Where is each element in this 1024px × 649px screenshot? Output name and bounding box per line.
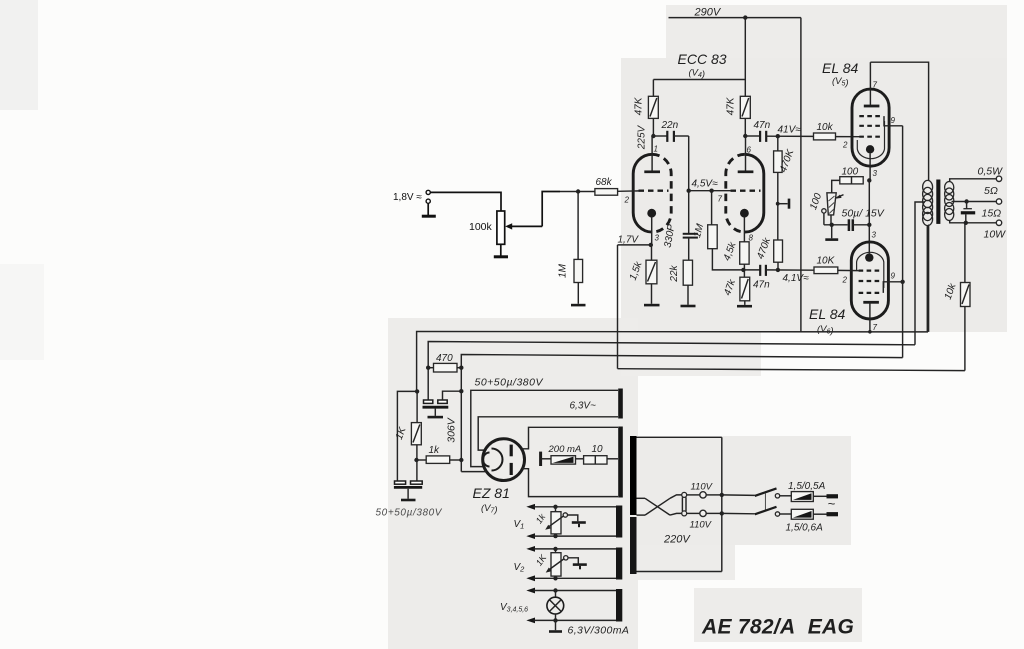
pentode V5 anode bar <box>864 105 880 108</box>
resistor 22k <box>683 260 692 285</box>
svg-text:7: 7 <box>873 81 878 90</box>
wire 470 left node <box>428 367 433 369</box>
svg-text:1,7V: 1,7V <box>618 235 640 246</box>
wire 1M-2 grid leak top <box>711 191 713 225</box>
capacitor 47n upper <box>760 131 766 142</box>
svg-text:3: 3 <box>655 234 660 243</box>
wire cathode node to 47n lower <box>743 269 760 271</box>
junction dot 41V node <box>776 134 780 138</box>
wire upper cap ground stub <box>434 409 436 416</box>
junction dot 1K top <box>415 389 419 393</box>
svg-text:ECC 83: ECC 83 <box>678 51 727 67</box>
resistor 100 cathode <box>840 177 863 184</box>
arrow lamp bottom <box>526 618 535 624</box>
arrow trimmer adjust <box>837 195 844 198</box>
junction dot box edge top <box>720 493 724 497</box>
wire pot bottom lead <box>500 244 502 256</box>
scan paper block top right <box>666 5 1007 59</box>
svg-text:290V: 290V <box>694 7 722 19</box>
slash in 1,5k <box>648 262 656 282</box>
triode ECC83a anode lead <box>651 136 653 172</box>
svg-text:220V: 220V <box>663 534 691 546</box>
svg-text:22k: 22k <box>669 264 680 282</box>
wire input grid line scan part <box>560 191 595 193</box>
slash in 1K <box>413 425 420 443</box>
scan paper 220V lower block <box>638 545 735 580</box>
triode ECC83a anode bar <box>644 170 660 173</box>
wire jumper to 110V circle bottom <box>687 512 700 514</box>
junction dot box edge bottom <box>720 511 724 515</box>
svg-text:1,8V ≈: 1,8V ≈ <box>393 192 422 203</box>
triode ECC83b grid dashes <box>731 190 761 192</box>
transformer core primary-side bar <box>630 436 637 515</box>
pentode V6 anode bar <box>863 301 879 304</box>
capacitor 47n lower <box>760 265 766 276</box>
junction dot grid T2 <box>709 189 713 193</box>
ground 22k <box>681 305 696 308</box>
scan paper bus strip <box>621 332 761 376</box>
ground chassis bar <box>788 199 791 209</box>
wire tap cross lower stub <box>637 514 646 516</box>
capacitor across secondary taps <box>963 208 972 210</box>
wire 1M-2 bottom lead <box>712 249 743 270</box>
wire 10 to core <box>607 458 618 460</box>
transformer core bar <box>936 180 940 224</box>
transformer core secondary-side lamp segment <box>616 589 622 622</box>
capacitor 50+50u upper pair plate A <box>424 400 433 403</box>
arrow V1 top <box>526 504 535 510</box>
switch blade top <box>755 488 777 496</box>
wire 10k to grid V5 <box>836 136 860 138</box>
ground lower cap pair <box>401 499 416 502</box>
divider in 100 resistor <box>851 177 853 184</box>
wire V1 bottom <box>534 535 617 537</box>
junction dot cathode T1 <box>649 243 653 247</box>
svg-text:1: 1 <box>654 145 658 154</box>
fuse bottom wedge <box>793 511 812 518</box>
switch contact top <box>775 494 779 498</box>
wire input ground lead <box>427 203 429 215</box>
resistor 10 body <box>584 456 607 464</box>
switch blade bottom <box>755 507 777 515</box>
triode ECC83b anode bar <box>738 170 754 173</box>
switch mechanical link <box>764 493 766 510</box>
fuse 1,5/0,5A body <box>791 492 813 502</box>
wire 470k-1 top lead <box>777 136 779 151</box>
capacitor 50+50u upper pair plate B <box>438 400 447 403</box>
junction dot 290V rail <box>743 15 747 19</box>
wire tap cross diagonal A <box>645 498 670 515</box>
wire primary bottom lead <box>928 225 930 332</box>
EZ81 anode bar top <box>510 445 513 457</box>
svg-text:47n: 47n <box>753 280 770 291</box>
svg-text:~: ~ <box>828 496 836 511</box>
resistor 10k grid stopper V5 <box>814 133 836 140</box>
wire 110V top to box edge <box>706 494 722 496</box>
resistor 10k grid stopper V6 <box>814 267 838 274</box>
wire secondary top rail <box>950 179 997 182</box>
svg-text:47K: 47K <box>634 96 645 115</box>
node terminal 5ohm <box>996 199 1001 204</box>
svg-text:6: 6 <box>747 146 752 155</box>
wire 1M-1 bottom lead <box>577 283 579 304</box>
svg-text:(V6): (V6) <box>817 324 834 337</box>
wire lamp row ground lead <box>555 620 557 630</box>
ground V2 wiper <box>573 563 587 566</box>
svg-text:2: 2 <box>842 276 848 285</box>
svg-text:4,1V≈: 4,1V≈ <box>783 273 810 284</box>
resistor 4,5k <box>740 242 749 264</box>
wire 470k-2 bottom lead <box>777 262 779 270</box>
junction dot anode T1 <box>651 134 655 138</box>
wire 22n to grid column <box>674 135 689 137</box>
triode ECC83a cathode dot <box>647 209 656 218</box>
svg-text:V2: V2 <box>514 562 526 574</box>
scan artifact top-left <box>0 0 38 110</box>
wire left PSU node top <box>397 391 417 481</box>
svg-text:50+50µ/380V: 50+50µ/380V <box>475 377 544 389</box>
svg-text:6,3V~: 6,3V~ <box>570 401 597 412</box>
scan artifact left <box>0 264 44 360</box>
node V2 wiper circle <box>564 556 568 560</box>
transformer core secondary-side heater segment <box>618 389 623 419</box>
junction dot mid 470k <box>776 202 780 206</box>
wire 47k-1 top lead <box>652 80 654 97</box>
wire box to switch bottom <box>722 512 755 514</box>
wire input to pot top <box>430 192 501 211</box>
resistor 68k <box>595 189 618 196</box>
junction dot cathode T2 node <box>741 268 745 272</box>
junction dot lamp top <box>553 588 557 592</box>
wire HT drop right side <box>800 18 802 332</box>
wire cap bottom lead <box>965 214 967 222</box>
wire cross to jumper bottom <box>670 513 682 515</box>
junction dot cathode column <box>867 223 871 227</box>
ground HV centre bar <box>539 452 542 466</box>
slash in 47k right <box>742 98 749 117</box>
wire bus feedback <box>618 369 965 371</box>
junction dot V2 bottom <box>553 576 557 580</box>
wire V2 top <box>534 548 617 550</box>
arrow through V2 pot <box>548 559 564 571</box>
wire bus screens supply <box>461 355 902 472</box>
wire 110V bottom to box edge <box>706 512 722 514</box>
transformer core secondary-side HV segment <box>618 427 623 498</box>
wire secondary bottom rail <box>950 220 997 223</box>
arrow V2 top <box>526 546 535 552</box>
wire cathode T1 node <box>618 244 652 246</box>
svg-text:50+50µ/380V: 50+50µ/380V <box>376 508 443 519</box>
wire V6 screen link <box>883 282 902 293</box>
svg-text:2: 2 <box>624 196 630 205</box>
arrow pot wiper head <box>505 223 512 229</box>
wire 4,5k bottom lead <box>743 264 745 277</box>
wire 47k-1 bottom lead <box>652 118 654 136</box>
wire chassis stub <box>778 203 788 205</box>
pentode EL84 V5 envelope <box>852 89 889 166</box>
lamp cross <box>549 600 561 612</box>
node 110V terminal bottom <box>700 510 706 516</box>
wire 1K bottom lead <box>416 445 418 481</box>
pentode EL84 V6 envelope <box>851 242 888 319</box>
wire 22k to ground <box>687 285 689 305</box>
ground lamp row <box>549 630 562 633</box>
trimmer V1 hum pot body <box>551 512 561 534</box>
wire cathode bias rail <box>824 224 848 226</box>
triode ECC83b cathode dot <box>740 209 749 218</box>
wire feedback column <box>964 223 966 283</box>
svg-text:7: 7 <box>718 195 723 204</box>
wire lamp bottom <box>534 619 617 621</box>
wire V1 top <box>534 506 617 508</box>
svg-text:41V≈: 41V≈ <box>778 125 802 136</box>
svg-text:9: 9 <box>891 116 896 125</box>
triode ECC83b envelope solid half <box>745 154 764 232</box>
triode ECC83b anode lead <box>745 136 747 172</box>
arrow V2 bottom <box>526 575 535 581</box>
wire 4,5k top lead <box>743 241 745 243</box>
wire upper cap B lead <box>443 391 462 400</box>
wire primary box bottom rail <box>637 571 722 573</box>
divider in 10 resistor <box>594 456 596 464</box>
resistor 1,5k cathode <box>646 260 657 284</box>
wire 1k right lead <box>450 459 462 461</box>
wire lamp top <box>534 590 617 592</box>
wire trimmer bottom lead <box>830 215 832 225</box>
svg-text:0,5W: 0,5W <box>978 166 1004 178</box>
svg-text:V1: V1 <box>514 519 525 531</box>
svg-text:10: 10 <box>592 444 604 455</box>
junction dot V2 top <box>553 547 557 551</box>
scan paper PSU block <box>388 318 638 649</box>
pentode V6 anode lead <box>869 302 871 332</box>
triode ECC83b cathode lead <box>743 217 745 242</box>
capacitor 50+50u lower pair plate A <box>395 481 406 484</box>
ground pot bottom <box>494 255 508 258</box>
svg-text:200 mA: 200 mA <box>548 444 582 455</box>
wire screens column <box>902 126 904 358</box>
fuse 1,5/0,6A body <box>791 509 813 519</box>
wire switch to fuse bottom <box>780 513 792 515</box>
fuse 200mA body <box>551 456 576 464</box>
wire feedback drop <box>617 245 619 369</box>
slash in 47k cathode <box>742 279 749 299</box>
resistor 1M grid leak T2 <box>708 225 718 249</box>
ground input jack <box>422 215 436 218</box>
junction dot 306V node <box>459 458 463 462</box>
svg-text:10k: 10k <box>817 122 834 133</box>
lamp leads <box>555 591 557 599</box>
pentode V6 cathode dot <box>865 253 873 261</box>
voltage selector jumper terminal bottom <box>682 511 687 516</box>
svg-text:5Ω: 5Ω <box>984 185 998 197</box>
junction dot screens <box>900 280 904 284</box>
svg-text:15Ω: 15Ω <box>982 208 1002 220</box>
wire 10k to grid V6 <box>838 269 859 271</box>
resistor anode 47k (left) <box>648 96 658 118</box>
triode ECC83b envelope dashed half <box>726 154 745 232</box>
switch contact bottom <box>775 512 779 516</box>
svg-text:3: 3 <box>872 231 877 240</box>
capacitor 330p <box>683 234 698 238</box>
svg-text:EL 84: EL 84 <box>809 306 846 322</box>
resistor anode 47k (right) <box>740 96 750 118</box>
junction dot V6 anode on bus <box>868 330 872 334</box>
svg-text:9: 9 <box>891 272 896 281</box>
junction dot 470 left <box>426 366 430 370</box>
svg-text:225V: 225V <box>637 124 648 150</box>
junction dot bias rail <box>830 223 834 227</box>
wire anode supply rail <box>653 79 745 81</box>
svg-text:110V: 110V <box>691 482 714 493</box>
junction dot anode T2 <box>743 134 747 138</box>
wire primary centre tap <box>915 202 925 345</box>
wire 470k column <box>777 172 779 240</box>
wire 1k left lead <box>417 459 426 461</box>
pentode V6 grid rows <box>859 271 880 293</box>
svg-text:1,5/0,6A: 1,5/0,6A <box>786 523 824 534</box>
resistor 470k lower <box>774 240 783 262</box>
EZ81 anode bar bottom <box>510 463 513 475</box>
svg-text:2: 2 <box>842 141 848 150</box>
ground 1,5k <box>644 304 660 307</box>
slash in 47k left <box>650 98 657 117</box>
junction dot 1k node <box>414 458 418 462</box>
wire anode supply drop <box>744 18 746 97</box>
wire anode T1 to 22n <box>653 135 667 137</box>
resistor 470K upper <box>774 151 783 173</box>
arrow lamp top <box>526 588 535 594</box>
wire 47k-2 bottom lead <box>744 118 746 136</box>
wire tap cross diagonal B <box>645 498 670 515</box>
ground upper cap pair <box>428 416 444 419</box>
wire 47n lower to grid node V6 <box>766 269 814 271</box>
fuse 200mA wedge <box>553 457 574 463</box>
pentode V5 cathode lead <box>869 154 871 181</box>
junction dot 470 right <box>459 366 463 370</box>
junction dot 15ohm tap <box>964 221 968 225</box>
wire 50u to cathode column <box>853 224 870 226</box>
potentiometer 100k body <box>497 211 505 244</box>
wire 1,5k top lead <box>651 245 653 260</box>
wire pot wiper <box>511 225 542 227</box>
node trimmer wiper circle <box>822 209 826 213</box>
trimmer 100 hatches <box>829 196 835 214</box>
resistor 1K vertical <box>411 423 421 445</box>
wire heater rail top <box>471 390 618 466</box>
capacitor 50u plates <box>849 219 853 231</box>
wire anode T2 to 47n <box>745 135 760 137</box>
ground bias network <box>825 238 838 241</box>
capacitor lower pair common plate <box>394 486 422 489</box>
wire lower cap ground stub <box>407 489 409 499</box>
node 110V terminal top <box>700 492 706 498</box>
wire primary box top rail <box>637 436 722 438</box>
wire V2 bottom <box>534 577 617 579</box>
svg-text:4,5V≈: 4,5V≈ <box>692 179 719 190</box>
wire bus centre tap supply <box>428 342 915 401</box>
wire cross to jumper top <box>670 495 682 498</box>
resistor 10k feedback <box>961 283 971 307</box>
wire cap top lead <box>966 202 968 209</box>
junction dot lamp bottom <box>553 618 557 622</box>
wire anode bottom to HV winding <box>522 469 618 497</box>
triode ECC83a grid dashes <box>639 190 669 192</box>
lamp pilot circle <box>547 597 564 614</box>
svg-text:AE 782/A EAG: AE 782/A EAG <box>701 616 854 639</box>
svg-text:10K: 10K <box>817 256 836 267</box>
pentode V5 anode lead <box>869 62 871 105</box>
triode ECC83a envelope solid half <box>633 154 652 232</box>
wire anode top to HV winding <box>522 427 619 449</box>
transformer primary coil <box>923 180 933 225</box>
wire jumper to 110V circle top <box>687 494 700 496</box>
svg-text:1,5/0,5A: 1,5/0,5A <box>788 481 826 492</box>
wire bus B+ to primary <box>417 225 928 391</box>
junction dot V1 bottom <box>553 534 557 538</box>
svg-text:1M: 1M <box>558 263 569 278</box>
ground 47k cathode <box>737 305 752 308</box>
slash in 10k feedback <box>962 285 969 305</box>
arrow V1 bottom <box>526 533 535 539</box>
trimmer V2 hum pot leads <box>555 549 557 578</box>
node input terminal circle upper <box>426 190 430 194</box>
svg-text:470: 470 <box>436 353 453 364</box>
resistor 1M (input) <box>574 259 583 282</box>
transformer core secondary-side V1 segment <box>616 506 622 538</box>
wire 47k-3 bottom lead <box>744 301 746 305</box>
wire EZ81 cathode out <box>461 471 486 473</box>
fuse top wedge <box>793 493 812 500</box>
wire cathode column V5-V6 <box>868 180 870 253</box>
junction dot input node <box>576 189 580 193</box>
wire fuse bottom to terminal <box>813 513 826 515</box>
rectifier EZ81 envelope <box>483 439 525 481</box>
capacitor 50+50u lower pair plate B <box>411 481 423 484</box>
arrow through V1 pot <box>548 516 564 528</box>
trimmer V1 hum pot leads <box>555 507 557 536</box>
wire tap cross upper stub <box>637 497 646 499</box>
node input terminal circle lower <box>426 199 430 203</box>
wire 330p to 22k <box>688 238 690 261</box>
wire box to switch top <box>722 494 755 497</box>
svg-text:110V: 110V <box>690 520 713 531</box>
wire bar to fuse <box>541 458 551 460</box>
triode ECC83a cathode lead <box>651 217 653 245</box>
node terminal 0,5W <box>996 176 1001 181</box>
svg-text:(V4): (V4) <box>689 68 706 81</box>
svg-text:100k: 100k <box>469 221 493 233</box>
ground 1M input <box>571 304 586 307</box>
svg-text:(V7): (V7) <box>481 503 498 516</box>
mains terminal bar top <box>827 494 839 498</box>
node terminal 15ohm <box>996 220 1001 225</box>
white notch inside mains area <box>639 419 734 436</box>
junction dot cathode V5 <box>867 178 871 182</box>
voltage selector jumper terminal top <box>682 492 687 497</box>
voltage selector jumper link <box>681 497 683 511</box>
svg-text:1k: 1k <box>429 445 441 456</box>
resistor 47k cathode T2 <box>740 277 750 301</box>
trimmer 100 body <box>827 193 836 215</box>
wire 1M-1 top lead <box>577 192 579 260</box>
transformer secondary coil <box>945 182 954 221</box>
wire heater rail bottom <box>478 417 618 450</box>
svg-text:6,3V/300mA: 6,3V/300mA <box>568 625 630 637</box>
svg-text:306V: 306V <box>446 417 458 443</box>
wire primary box right edge <box>721 437 723 571</box>
mains terminal bar bottom <box>827 512 839 516</box>
